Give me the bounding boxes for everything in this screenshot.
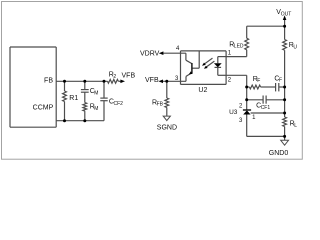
svg-text:LED: LED <box>234 44 244 50</box>
svg-text:U3: U3 <box>229 109 238 116</box>
svg-text:SGND: SGND <box>157 125 177 132</box>
svg-text:F: F <box>257 78 260 84</box>
svg-text:VDRV: VDRV <box>140 50 160 57</box>
svg-text:M: M <box>94 90 98 96</box>
svg-text:OUT: OUT <box>281 11 292 17</box>
svg-text:CF2: CF2 <box>114 101 124 107</box>
svg-text:2: 2 <box>113 74 116 80</box>
svg-text:CCMP: CCMP <box>33 105 54 112</box>
svg-text:FB: FB <box>44 77 53 84</box>
svg-text:U: U <box>293 45 297 51</box>
svg-text:CF1: CF1 <box>261 105 271 111</box>
svg-text:L: L <box>294 123 297 129</box>
svg-text:FB: FB <box>157 102 164 108</box>
svg-text:F: F <box>279 78 282 84</box>
svg-text:GND0: GND0 <box>269 150 289 157</box>
svg-text:U2: U2 <box>198 87 207 94</box>
svg-text:VFB: VFB <box>145 77 159 84</box>
svg-text:M: M <box>94 106 98 112</box>
svg-text:VFB: VFB <box>122 72 136 79</box>
svg-text:R1: R1 <box>69 95 78 102</box>
